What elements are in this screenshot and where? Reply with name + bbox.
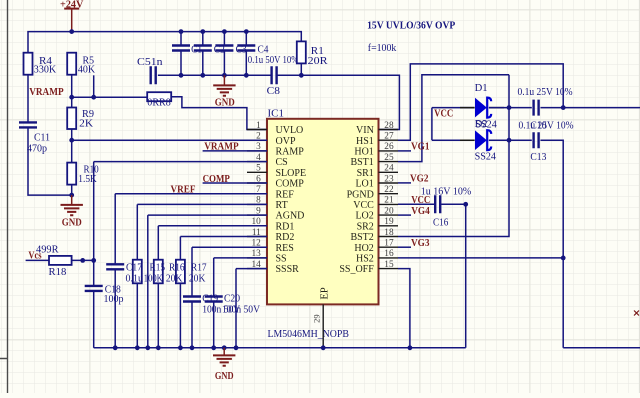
svg-text:+24V: +24V [60,0,84,10]
svg-text:RES: RES [276,243,294,254]
wire pin25 BST1 loop [398,75,509,162]
edge mark bottom right [634,311,639,316]
svg-text:RAMP: RAMP [276,147,305,158]
svg-text:HO1: HO1 [354,147,373,158]
capacitor C8 [272,66,277,84]
svg-text:C17: C17 [126,262,142,273]
wire R4 to C11 [27,75,29,122]
svg-text:C51n: C51n [137,57,163,68]
wire pin16 HS2 [398,257,563,259]
svg-text:0.1u: 0.1u [126,273,144,284]
svg-text:R16: R16 [169,262,185,273]
svg-text:OVP: OVP [276,136,296,147]
svg-text:R18: R18 [49,267,67,278]
pin 12 stub [247,246,267,248]
wire R9-R10 [71,129,73,163]
pin 7 stub [247,193,267,195]
pin 27 stub [379,139,399,141]
svg-text:SS24: SS24 [475,152,497,163]
svg-text:C11: C11 [34,133,50,144]
svg-text:21: 21 [384,196,394,206]
svg-text:AGND: AGND [276,211,305,222]
wire R5 to R9 [71,75,73,108]
pin 10 stub [247,225,267,227]
svg-text:RD2: RD2 [276,232,295,243]
label VG3 pin17 [398,246,411,248]
resistor R5 [67,53,76,75]
svg-text:22: 22 [384,185,394,195]
svg-text:23: 23 [384,174,394,184]
resistor R10 [67,163,76,185]
wire pin2 OVP [72,139,267,141]
svg-text:BST1: BST1 [350,157,373,168]
capacitor C2 [202,32,204,76]
wire pin11 RD2 [180,236,267,238]
resistor R9 [67,108,76,130]
label VG2 pin23 [398,182,411,184]
svg-text:2K: 2K [79,118,93,129]
pin 4 stub [247,161,267,163]
svg-text:HS2: HS2 [356,254,374,265]
pin 23 stub [379,182,399,184]
svg-text:SS_OFF: SS_OFF [339,264,374,275]
svg-text:0RR8: 0RR8 [147,97,171,108]
wire RT vertical + resistor R15 [136,204,138,259]
wire pin3 RAMP + label VRAMP [203,150,267,152]
ground GND mid-left [71,195,73,204]
svg-text:VIN: VIN [356,125,374,136]
svg-text:5: 5 [256,164,261,174]
ground GND bottom [223,348,225,355]
wire pin6 COMP + label [203,182,267,184]
wire pin21 VCC + capacitor C16 [398,203,434,205]
svg-text:VREF: VREF [171,185,196,196]
svg-text:LM5046MH_NOPB: LM5046MH_NOPB [268,329,349,340]
svg-text:VCC: VCC [353,200,374,211]
node VRAMP junction [69,95,74,100]
svg-text:27: 27 [384,132,394,142]
svg-text:SR2: SR2 [357,221,374,232]
svg-text:RT: RT [276,200,288,211]
svg-text:26: 26 [384,142,394,152]
svg-text:18: 18 [384,228,394,238]
svg-text:28: 28 [384,121,394,131]
svg-text:100K: 100K [144,273,163,284]
svg-text:R17: R17 [191,262,207,273]
pin 11 stub [247,236,267,238]
svg-text:UVLO: UVLO [276,125,304,136]
pin 5 stub [247,171,267,173]
svg-text:C20: C20 [224,294,240,305]
capacitor C11 [19,122,37,127]
wire CS vertical to R18 node and C18 [93,162,95,285]
diode D1 SS24 [460,107,504,109]
svg-text:470p: 470p [27,143,47,154]
capacitor C3 [223,32,225,76]
svg-text:HO2: HO2 [354,243,373,254]
svg-text:SSSR: SSSR [276,264,300,275]
wire R18 to CS node [72,259,94,261]
svg-text:LO2: LO2 [355,211,373,222]
pin 18 stub [379,236,399,238]
pin 6 stub [247,182,267,184]
svg-text:C19: C19 [202,294,218,305]
svg-text:GND: GND [215,371,234,382]
label VG4 pin20 [398,214,411,216]
svg-text:20: 20 [384,206,394,216]
svg-text:25: 25 [384,153,394,163]
wire RD1 vertical + resistor R16 [157,226,159,260]
capacitor C1 [180,32,182,76]
label VG1 pin26 [398,150,411,152]
op-amp U1 / IC1 LM5046MH body [267,119,379,305]
svg-text:20R: 20R [308,56,328,67]
power +24V [64,8,79,10]
wire D2 cathode row [489,140,563,348]
pin 16 stub [379,257,399,259]
wire VCC vertical to rail [465,204,467,347]
wire pin10 RD1 [158,225,267,227]
svg-text:24: 24 [384,164,394,174]
svg-text:16: 16 [384,249,394,259]
svg-text:330K: 330K [34,64,57,75]
wire pin7 REF [115,193,267,195]
svg-text:1: 1 [256,121,261,131]
svg-text:HS1: HS1 [356,136,374,147]
svg-text:SR1: SR1 [357,168,374,179]
svg-text:15: 15 [384,260,394,270]
svg-text:R15: R15 [150,262,166,273]
wire R8 to pin1 UVLO [171,97,267,130]
pin 3 stub [247,150,267,152]
capacitor C18 [85,286,103,291]
wire pin8 RT [137,203,267,205]
svg-text:0.1u 25V 10%: 0.1u 25V 10% [518,87,573,98]
svg-text:100n 50V: 100n 50V [222,304,260,315]
svg-text:15V UVLO/36V OVP: 15V UVLO/36V OVP [367,21,455,32]
pin 22 stub [379,193,399,195]
ground GND top [223,75,225,85]
pin 9 stub [247,214,267,216]
wire pin14 SSSR [236,268,267,270]
svg-text:LO1: LO1 [355,179,373,190]
svg-text:IC1: IC1 [268,108,285,119]
wire VCC bracket to diodes [432,108,475,141]
svg-text:VG4: VG4 [411,206,430,217]
pin 25 stub [379,161,399,163]
wire AGND vertical [147,215,149,348]
svg-text:VG2: VG2 [410,174,429,185]
wire Vcs [26,259,49,261]
wire +24V rail top [28,32,301,53]
wire SSSR vertical [235,269,237,348]
svg-text:VRAMP: VRAMP [204,142,239,153]
capacitor C10 [534,100,539,116]
svg-text:C2: C2 [214,44,225,55]
svg-text:40K: 40K [78,64,96,75]
svg-text:RD1: RD1 [276,221,295,232]
pin 28 stub [379,129,399,131]
wire pin15 SS_OFF [398,269,410,348]
svg-text:EP: EP [320,287,331,299]
resistor R4 [24,53,33,75]
svg-text:C13: C13 [530,152,546,163]
pin 29 EP stub [322,304,324,347]
svg-text:1u 16V 10%: 1u 16V 10% [421,187,472,198]
svg-text:20K: 20K [166,273,183,284]
pin 24 stub [379,171,399,173]
svg-text:100p: 100p [104,294,124,305]
wire D1 cathode row [489,107,640,109]
pin 8 stub [247,203,267,205]
svg-text:REF: REF [276,189,295,200]
resistor R8 (0R) [147,92,171,101]
capacitor C4 [245,32,247,76]
svg-text:BST2: BST2 [350,232,373,243]
pin 19 stub [379,225,399,227]
resistor R18 [49,256,72,265]
svg-text:COMP: COMP [276,179,305,190]
pin 15 stub [379,268,399,270]
svg-text:CS: CS [276,157,288,168]
wire vertical x509 to pin18 BST2 [398,75,509,237]
svg-text:VCC: VCC [434,109,453,120]
capacitor C5 [151,66,156,84]
svg-text:C1: C1 [191,44,202,55]
sheet border left edge [0,0,8,393]
wire RES vertical + capacitor C19 [191,247,193,295]
svg-text:19: 19 [384,217,394,227]
svg-text:COMP: COMP [203,174,231,185]
wire rail y=75 with C5 C8 in series [158,74,271,76]
pin 1 stub [247,129,267,131]
svg-text:C4: C4 [258,44,270,55]
pin 20 stub [379,214,399,216]
wire pin27 HS1 loop to C10 node [398,64,563,140]
resistor R1 [297,41,306,63]
wire VRAMP horizontal [72,96,148,98]
svg-text:SLOPE: SLOPE [276,168,307,179]
wire REF vertical to C17 [114,194,116,264]
pin 21 stub [379,203,399,205]
svg-text:GND: GND [215,98,235,109]
svg-text:f=100k: f=100k [368,43,397,54]
svg-text:SS24: SS24 [475,119,497,130]
svg-text:C16: C16 [433,217,448,228]
svg-text:VG1: VG1 [411,142,430,153]
wire pin12 RES [192,246,267,248]
svg-text:0.1u 50V 10%: 0.1u 50V 10% [248,55,299,66]
pin 14 stub [247,268,267,270]
wire pin4 CS [94,161,267,163]
svg-text:29: 29 [312,314,322,323]
capacitor C13 [534,132,539,148]
diode D2 SS24 [460,139,504,141]
svg-text:VG3: VG3 [411,238,430,249]
pin 13 stub [247,257,267,259]
wire C11 to GND junction [28,128,72,195]
svg-text:SS: SS [276,254,287,265]
svg-text:C3: C3 [236,44,247,55]
wire rail bottom right [563,347,640,349]
pin 2 stub [247,139,267,141]
pin 26 stub [379,150,399,152]
pin 17 stub [379,246,399,248]
svg-text:17: 17 [384,239,394,249]
svg-text:PGND: PGND [347,189,374,200]
wire pin9 AGND [148,214,267,216]
svg-text:GND: GND [62,218,82,229]
capacitor C17 [106,264,124,269]
node +24V junction [69,29,74,34]
svg-text:VRAMP: VRAMP [29,87,64,98]
svg-text:499R: 499R [36,245,59,256]
wire SS vertical + capacitor C20 [213,258,215,296]
wire ground rail bottom [94,347,466,349]
wire pin13 SS [214,257,267,259]
wire RD2 vertical + resistor R17 [179,237,181,260]
svg-text:C8: C8 [267,86,280,97]
wire rail75 left vertical [93,75,95,97]
svg-text:D1: D1 [475,83,488,94]
wire R10 to gnd [71,185,73,196]
svg-text:C10: C10 [530,120,546,131]
